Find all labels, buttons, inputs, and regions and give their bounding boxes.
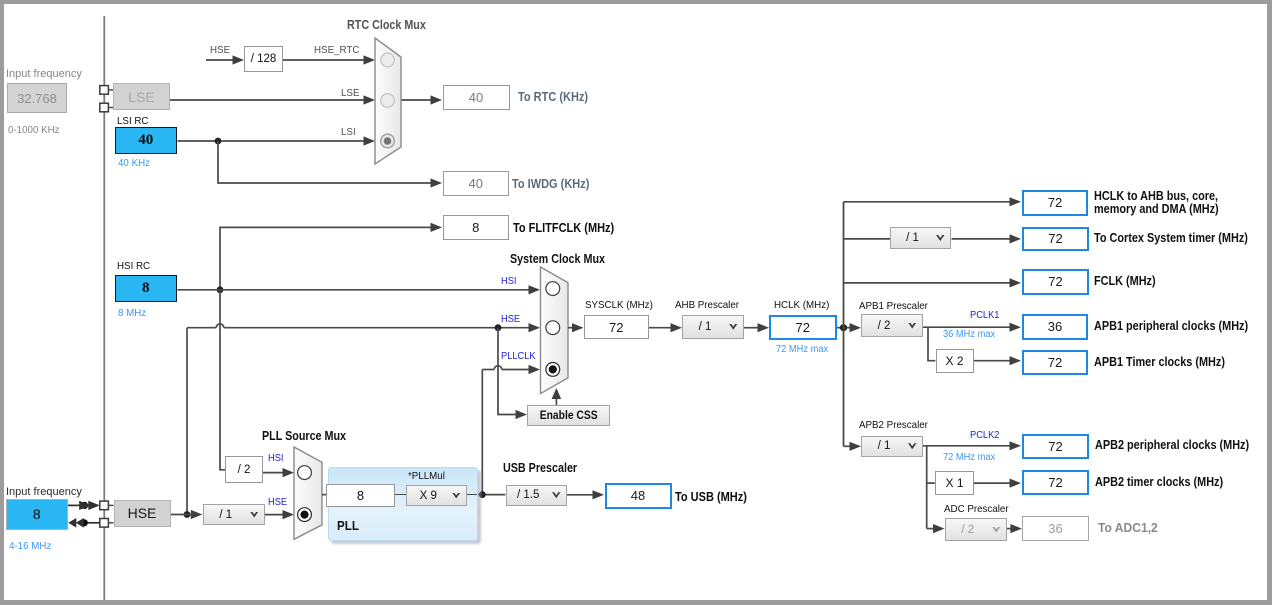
box To RTC value 40 <box>443 85 510 110</box>
label PCLK2 <box>970 430 999 442</box>
wire X1 to APB2 timer box <box>974 479 1021 488</box>
wire /2 to PLL source mux <box>263 468 294 477</box>
wire HSI RC to system clock mux <box>178 285 541 294</box>
label RTC Clock Mux title <box>347 18 426 32</box>
wire LSI to RTC mux <box>178 136 376 145</box>
wire bus to FCLK box <box>844 278 1022 287</box>
wire X9 to junction overlay <box>467 494 477 496</box>
wire bus to Cortex prescaler and box <box>844 234 1022 243</box>
label APB2 timer clocks <box>1095 476 1223 489</box>
wire X2 to APB1 timer box <box>974 356 1021 365</box>
box To ADC 36 <box>1022 516 1089 541</box>
wire PLLCLK vertical and horizontal to mux with hop over x=498 <box>479 365 540 498</box>
label 40 KHz <box>118 157 150 169</box>
box APB2 timer 72 <box>1022 470 1089 495</box>
label PCLK1 <box>970 310 999 322</box>
wire bus corner to APB2 prescaler <box>844 442 862 451</box>
radio PLL HSE (selected) <box>298 508 312 522</box>
dropdown ADC prescaler /2 disabled <box>945 518 1008 541</box>
label LSI RC <box>117 115 148 127</box>
wire HSE horizontal to system clock mux with hop over x=220 <box>187 323 540 332</box>
label input frequency (LSE) <box>6 68 82 81</box>
wire HSE vertical from HSE box junction up <box>184 328 191 518</box>
pin square LSE OSC32_IN <box>100 86 109 95</box>
dropdown Cortex prescaler /1 <box>890 227 951 249</box>
label *PLLMul <box>408 470 445 482</box>
radio LSE (disabled) <box>381 94 395 108</box>
box SYSCLK 72 <box>584 315 650 339</box>
box PLL input 8 <box>326 484 395 508</box>
box APB1 timer 72 <box>1022 350 1088 375</box>
wire APB1 prescaler output to APB1 peripheral box <box>923 323 1021 332</box>
label System Clock Mux title <box>510 252 605 266</box>
radio HSE <box>546 321 560 335</box>
wire PLL mux to PLL input box <box>322 494 326 496</box>
wire ADC prescaler to ADC box <box>1007 524 1022 533</box>
label HCLK to AHB bus <box>1094 190 1219 216</box>
label APB1 Timer clocks <box>1094 356 1225 369</box>
wire AHB prescaler to HCLK <box>744 323 769 332</box>
label To Cortex System timer <box>1094 232 1248 245</box>
label HSI RC <box>117 260 150 272</box>
box LSI RC 40 <box>115 127 177 154</box>
wire HSI to FLITFCLK <box>217 223 442 293</box>
wire LSI branch to IWDG <box>218 141 442 188</box>
label PLLCLK mux input <box>501 351 536 363</box>
label 0-1000 KHz <box>8 124 60 136</box>
wire USB prescaler to USB box <box>567 490 604 499</box>
wire PLL 8 box to X9 <box>395 494 406 496</box>
box To IWDG value 40 <box>443 171 510 196</box>
box /2 divider HSI <box>225 456 263 483</box>
wire APB1 branch to X2 <box>928 327 935 361</box>
radio PLLCLK (selected) <box>546 363 560 377</box>
box X2 multiplier <box>936 349 974 373</box>
label To FLITFCLK (MHz) <box>513 221 614 235</box>
wire APB2 prescaler output to APB2 peripheral box <box>923 441 1021 450</box>
label PLL Source Mux title <box>262 429 346 443</box>
label HSI pll input <box>268 453 284 465</box>
wire HSE pin stubs <box>108 505 113 522</box>
label 36 MHz max <box>943 329 995 341</box>
box To FLITFCLK value 8 <box>443 215 510 240</box>
wire bus to HCLK AHB box <box>844 197 1022 206</box>
label To RTC (KHz) <box>518 90 588 104</box>
wire APB2 branch down <box>926 446 928 529</box>
box HSE oscillator <box>114 500 171 528</box>
system clock mux trapezoid <box>541 267 569 394</box>
dropdown /1 HSE prediv <box>203 504 266 525</box>
box HSI RC 8 <box>115 275 177 303</box>
label FCLK (MHz) <box>1094 275 1156 288</box>
wire branch to X1 <box>927 482 935 484</box>
label APB2 Prescaler <box>859 419 928 431</box>
box APB1 peripheral 36 <box>1022 314 1088 340</box>
wire HSE stub to /128 <box>206 55 244 64</box>
wire X9 output junction to USB prescaler <box>467 491 505 498</box>
box Enable CSS button <box>527 405 610 426</box>
wire HSE box to /1 prediv <box>171 510 203 519</box>
label APB2 peripheral clocks <box>1095 439 1249 452</box>
label APB1 peripheral clocks <box>1094 320 1248 333</box>
chip boundary line <box>103 16 105 600</box>
label input frequency (HSE) <box>6 486 82 499</box>
box APB2 peripheral 72 <box>1022 434 1089 459</box>
PLL block background <box>328 467 478 541</box>
PLL source mux trapezoid <box>294 447 322 539</box>
dropdown APB2 prescaler /1 <box>861 436 923 458</box>
box HSE input frequency 8 <box>6 499 68 530</box>
label HSE stub <box>210 44 230 56</box>
radio HSI <box>546 282 560 296</box>
dropdown APB1 prescaler /2 <box>861 314 923 337</box>
wire Enable CSS up arrow into mux <box>552 388 562 405</box>
wire PLL 8 box to X9 overlay <box>395 494 406 496</box>
wire OSC_OUT to input freq with double arrows <box>68 518 100 528</box>
wire system mux output to SYSCLK <box>568 323 584 332</box>
label To USB (MHz) <box>675 490 747 504</box>
label APB1 Prescaler <box>859 300 928 312</box>
box HCLK to AHB 72 <box>1022 190 1088 216</box>
pin square LSE OSC32_OUT <box>100 103 109 112</box>
box To USB 48 <box>605 483 672 510</box>
wire input freq to OSC_IN with double arrows <box>68 501 100 510</box>
wire /128 to RTC mux (HSE_RTC) <box>283 55 375 64</box>
label HSE mux input <box>501 314 520 326</box>
dropdown AHB prescaler /1 <box>682 315 744 339</box>
box FCLK 72 <box>1022 269 1089 295</box>
label SYSCLK (MHz) <box>585 299 653 311</box>
wire HSE to Enable CSS <box>498 328 527 419</box>
pin square HSE OSC_IN <box>100 501 109 510</box>
label HSI mux input <box>501 276 517 288</box>
wire HCLK to bus junction and APB1 arrow <box>837 323 862 332</box>
label 72 MHz max APB2 <box>943 452 995 464</box>
label ADC Prescaler <box>944 503 1009 515</box>
box Cortex timer 72 <box>1022 227 1089 252</box>
wire LSE pin stubs <box>108 90 113 108</box>
label LSE mux input <box>341 87 359 99</box>
label USB Prescaler title <box>503 461 577 475</box>
wire HSI down to PLL /2 <box>220 290 225 470</box>
box X1 multiplier <box>935 471 974 495</box>
box LSE oscillator <box>113 83 170 110</box>
bus vertical line HCLK <box>843 202 845 446</box>
box HCLK 72 <box>769 315 837 341</box>
label 8 MHz <box>118 307 146 319</box>
wire RTC mux output to To RTC box <box>402 95 443 104</box>
pin square HSE OSC_OUT <box>100 519 109 528</box>
label 4-16 MHz <box>9 540 51 552</box>
wire LSE to RTC mux <box>170 95 375 104</box>
label HCLK (MHz) <box>774 299 829 311</box>
wire branch to ADC prescaler <box>927 524 945 533</box>
label To ADC1,2 <box>1098 521 1158 536</box>
label AHB Prescaler <box>675 299 739 311</box>
radio PLL HSI <box>298 466 312 480</box>
wire SYSCLK to AHB prescaler <box>649 323 682 332</box>
label LSI mux input <box>341 126 356 138</box>
label To IWDG (KHz) <box>512 177 589 191</box>
dropdown USB prescaler /1.5 <box>506 485 568 506</box>
radio HSE_RTC (disabled) <box>381 53 395 67</box>
label 72 MHz max <box>776 344 828 356</box>
label PLL <box>337 519 359 533</box>
dropdown PLLMul X9 <box>406 485 468 506</box>
box /128 divider <box>244 46 283 72</box>
wire /1 prediv to PLL source mux <box>265 510 294 519</box>
RTC clock mux trapezoid <box>375 38 401 164</box>
label HSE pll input <box>268 497 287 509</box>
box LSE input frequency 32.768 <box>7 83 67 113</box>
radio LSI (selected) <box>381 134 395 148</box>
label HSE_RTC <box>314 44 359 56</box>
